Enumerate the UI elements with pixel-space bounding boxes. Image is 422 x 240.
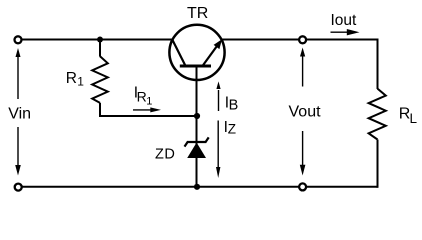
wire base/zener vertical <box>196 60 198 187</box>
transistor TR emitter arrowhead <box>214 39 222 49</box>
svg-text:B: B <box>229 97 239 113</box>
resistor RL <box>369 89 386 140</box>
junction node at R1 top <box>97 37 103 43</box>
wire R1 bottom lead <box>100 103 197 116</box>
svg-text:1: 1 <box>146 96 152 108</box>
wire top rail <box>20 39 378 41</box>
Vout arrow down <box>300 131 306 176</box>
svg-text:Vin: Vin <box>8 106 31 123</box>
transistor TR emitter lead <box>203 46 217 66</box>
svg-text:R: R <box>137 89 147 105</box>
IB arrow <box>216 81 220 111</box>
transistor TR collector lead <box>172 40 185 66</box>
Vout arrow up <box>300 48 305 87</box>
Vin arrow down <box>15 127 21 176</box>
wire R1 top lead <box>99 40 101 57</box>
svg-text:Vout: Vout <box>289 104 322 121</box>
svg-text:Iout: Iout <box>331 12 358 29</box>
terminal top-right <box>299 36 306 43</box>
terminal bottom-right <box>299 183 306 190</box>
svg-text:L: L <box>410 111 418 126</box>
IR1 arrow <box>133 107 161 112</box>
junction node at zener bottom <box>194 184 200 190</box>
label IB <box>225 94 238 113</box>
resistor R1 <box>92 56 108 103</box>
label R1 <box>66 70 84 88</box>
wire bottom rail <box>18 186 378 188</box>
zener diode ZD cathode bar <box>185 137 209 146</box>
IZ arrow <box>216 121 220 179</box>
terminal bottom-left <box>15 184 22 191</box>
svg-text:TR: TR <box>187 5 208 22</box>
transistor TR circle <box>169 25 224 80</box>
zener diode ZD triangle <box>187 143 206 159</box>
transistor TR base lead <box>196 66 198 82</box>
junction node at base <box>194 113 200 119</box>
transistor TR base bar <box>180 65 211 68</box>
svg-text:R: R <box>66 70 77 87</box>
Iout arrow <box>331 29 360 35</box>
terminal top-left <box>15 36 22 43</box>
Vin arrow up <box>16 48 21 99</box>
wire right drop upper <box>377 39 379 90</box>
svg-text:ZD: ZD <box>155 147 175 163</box>
wire right drop lower <box>377 140 379 188</box>
label IZ <box>224 119 236 137</box>
svg-text:Z: Z <box>228 121 236 136</box>
svg-text:1: 1 <box>77 74 84 88</box>
label IR1 <box>134 85 153 108</box>
label RL <box>399 106 418 126</box>
